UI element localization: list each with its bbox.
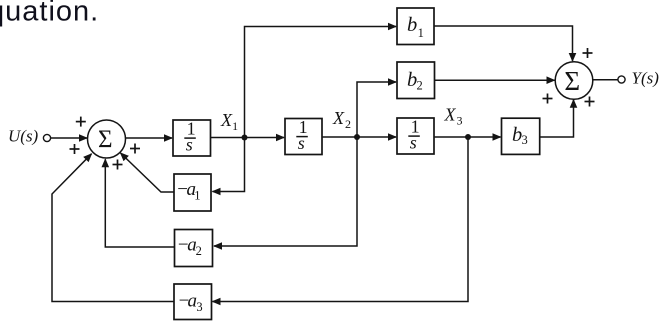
block -a3 [174,284,212,320]
summing junction S1 [88,120,126,158]
svg-text:b: b [407,14,417,36]
block b3 [502,118,540,154]
wire -a2 to S1 (left then up) [105,159,174,247]
svg-text:X: X [332,108,345,128]
svg-text:1: 1 [194,189,200,203]
block b2 [397,62,435,99]
integrator block 1/s (first) [173,118,211,156]
svg-text:s: s [186,135,193,155]
svg-text:1: 1 [232,119,238,133]
wire X1 down to -a1 [213,138,245,192]
plus sign (S2 top, b1 path) [583,48,593,58]
plus sign (left below input) [70,144,80,154]
plus sign (S2 left-bottom, b2 path) [543,94,553,104]
svg-text:Y(s): Y(s) [632,69,660,88]
plus sign (U input, top) [76,117,86,127]
integrator block 1/s (third) [397,116,434,154]
input terminal U(s) [8,127,51,146]
svg-text:s: s [298,133,305,153]
svg-text:2: 2 [196,244,202,258]
svg-text:3: 3 [457,114,463,128]
svg-text:Σ: Σ [98,126,113,153]
wire -a1 to S1 (horizontal then diagonal) [121,153,175,192]
wire X3 down to -a3 [213,137,469,302]
wire I2 to I3 [322,136,396,138]
wire b1 to S2 (right then down) [434,26,573,61]
node X3 [465,134,471,140]
wire b2 to S2 [435,79,555,81]
summing junction S2 [555,62,593,100]
output terminal Y(s) [618,69,659,88]
wire S2 to Y(s) terminal [593,79,618,81]
wire U(s) to summing junction S1 [51,137,87,139]
block -a2 [175,230,213,267]
svg-text:X: X [444,105,457,125]
svg-text:s: s [410,133,417,153]
wire S1 to integrator 1 [126,137,172,139]
wire I1 to I2 [211,137,285,139]
block -a1 [174,174,211,211]
wire I3 to b3 [434,136,501,138]
svg-text:quation.: quation. [0,0,99,27]
svg-text:Σ: Σ [564,66,580,96]
plus sign (below S1, -a2 path) [113,160,123,170]
svg-text:U(s): U(s) [8,127,39,146]
svg-text:X: X [220,110,233,130]
svg-text:1: 1 [418,26,424,40]
node X1 [242,135,248,141]
wire -a3 to S1 (left, up, diagonal) [52,154,174,302]
wire X2 up to b2 [357,82,396,137]
plus sign (S2 right-bottom, b3 path) [585,97,595,107]
svg-text:3: 3 [522,133,528,147]
wire b3 to S2 (right then up) [540,100,574,137]
wire X2 down to -a2 [214,137,357,246]
wire X1 up to b1 [245,27,397,138]
node X2 [354,134,360,140]
integrator block 1/s (second) [285,117,322,155]
plus sign (right of S1, -a1 path) [130,144,140,154]
svg-text:2: 2 [345,117,351,131]
label X1 [220,110,238,133]
label X3 [444,105,463,128]
svg-text:3: 3 [196,300,202,314]
svg-text:2: 2 [417,79,423,93]
label X2 [332,108,351,131]
block b1 [397,8,434,45]
